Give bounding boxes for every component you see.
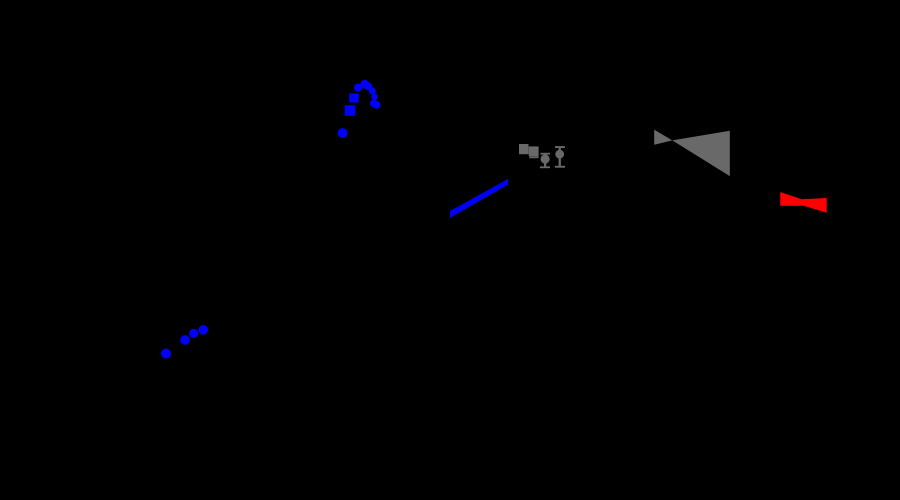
blue point L1 [161, 349, 171, 359]
blue square marker S1 [349, 93, 359, 102]
blue square marker S2 with error bar [345, 105, 356, 114]
blue point P1 [354, 84, 362, 92]
blue point L3 [189, 329, 198, 338]
blue data point cluster (upper arch) [338, 80, 381, 138]
gray square marker B with cap [529, 146, 539, 156]
gray errorbar point D [555, 146, 565, 148]
blue point L4 [199, 325, 209, 335]
gray square marker A [519, 144, 529, 154]
blue point P2 [361, 80, 370, 89]
blue fit line segment [450, 179, 508, 218]
blue point P4 [369, 88, 376, 95]
blue data point cluster (lower left) [161, 325, 208, 359]
blue point L2 [180, 335, 190, 345]
blue point P5 [371, 94, 378, 101]
blue point P8 (isolated below) [338, 128, 348, 138]
blue point P3 [364, 82, 372, 90]
blue point P6 [370, 100, 378, 108]
blue point P7 [373, 101, 381, 109]
gray archival points with error bars [519, 144, 565, 168]
gray bowtie (X-ray spectrum butterfly) [654, 130, 730, 177]
gray errorbar point C [540, 153, 550, 155]
red bowtie (gamma-ray spectrum butterfly) [780, 192, 826, 213]
